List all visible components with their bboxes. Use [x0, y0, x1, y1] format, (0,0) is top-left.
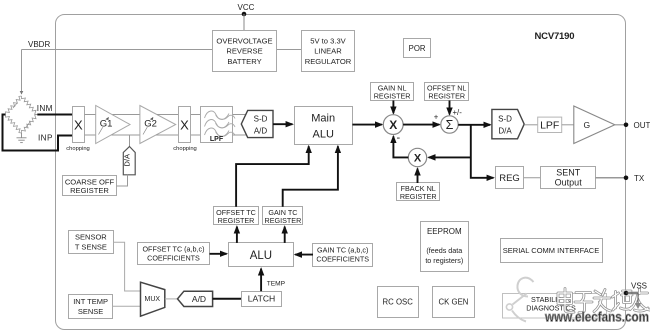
wire SD-AD to Main ALU: [273, 123, 292, 125]
svg-text:X: X: [389, 118, 397, 132]
svg-text:TX: TX: [634, 174, 645, 183]
svg-text:X: X: [180, 117, 189, 132]
svg-text:chopping: chopping: [173, 146, 197, 152]
wire feedback multiplier to main multiplier: [393, 136, 408, 157]
svg-text:REGULATOR: REGULATOR: [305, 57, 352, 66]
fback NL register block: [397, 183, 440, 202]
MUX: [141, 282, 165, 316]
wire gain coefficients to ALU: [295, 254, 313, 256]
5V to 3.3V linear regulator block: [302, 31, 355, 72]
svg-text:GAIN TC (a,b,c): GAIN TC (a,b,c): [317, 245, 368, 254]
wire offset coefficients to ALU: [210, 253, 227, 255]
sigma-delta D/A converter: [492, 109, 524, 138]
output filter LPF: [538, 117, 562, 132]
svg-text:G: G: [584, 120, 591, 130]
svg-text:www.elecfans.com: www.elecfans.com: [544, 309, 649, 325]
wire G to OUT: [615, 124, 626, 126]
VCC node dot: [242, 12, 247, 17]
wire gain TC register to Main ALU: [283, 146, 338, 207]
multiplier X: [383, 115, 403, 135]
svg-text:SENSE: SENSE: [78, 307, 103, 316]
svg-text:+: +: [434, 112, 439, 121]
temp A/D converter: [178, 291, 213, 306]
OUT node dot: [624, 123, 629, 128]
svg-text:REGISTER: REGISTER: [428, 92, 465, 101]
wire SENT to TX: [596, 177, 626, 179]
sensor bridge: [5, 96, 37, 133]
wires G1 to G2: [113, 114, 140, 116]
svg-text:INM: INM: [37, 104, 53, 113]
RC OSC block: [378, 287, 419, 318]
svg-text:INT TEMP: INT TEMP: [73, 297, 108, 306]
serial comm interface block: [501, 239, 603, 263]
CK GEN block: [433, 287, 475, 318]
SENT output block: [541, 167, 596, 189]
output buffer G: [574, 106, 615, 144]
svg-text:(feeds data: (feeds data: [426, 246, 462, 255]
svg-text:A/D: A/D: [254, 127, 268, 136]
svg-text:POR: POR: [409, 44, 426, 53]
wire multiplier to summer: [403, 124, 439, 126]
svg-text:ALU: ALU: [312, 129, 333, 141]
svg-text:VSS: VSS: [631, 282, 647, 291]
amplifier G2: [140, 106, 176, 144]
POR block: [404, 39, 431, 58]
int temp sense block: [69, 295, 113, 319]
wire overvoltage to regulator: [277, 49, 302, 51]
wire fback register to feedback multiplier: [417, 169, 419, 183]
gain NL register block: [371, 83, 414, 101]
svg-text:-: -: [397, 132, 401, 144]
wire latch to ALU temp: [260, 269, 262, 292]
wire summer to SD-DA: [458, 124, 490, 126]
wire REG to SENT: [524, 177, 541, 179]
feedback multiplier X: [408, 148, 426, 166]
svg-text:chopping: chopping: [66, 146, 90, 152]
svg-text:INP: INP: [38, 134, 53, 143]
wire VBDR horizontal: [22, 49, 213, 51]
svg-text:CK GEN: CK GEN: [439, 298, 469, 307]
ground symbol below bridge: [17, 133, 27, 143]
wire VSS: [626, 293, 638, 303]
svg-text:REGISTER: REGISTER: [400, 192, 437, 201]
REG block: [496, 167, 524, 189]
svg-text:G1: G1: [100, 119, 113, 130]
wires X2 to LPF: [191, 114, 201, 116]
coarse off register block: [63, 176, 117, 196]
svg-text:D/A: D/A: [123, 153, 132, 167]
svg-text:SENSOR: SENSOR: [75, 233, 107, 242]
gain TC coefficients block: [313, 244, 373, 267]
svg-text:RC OSC: RC OSC: [383, 298, 414, 307]
latch block: [242, 292, 282, 307]
svg-text:OVERVOLTAGE: OVERVOLTAGE: [216, 37, 272, 46]
svg-text:S-D: S-D: [498, 115, 512, 124]
svg-text:COEFFICIENTS: COEFFICIENTS: [316, 254, 369, 263]
wire offset NL register to summer: [449, 101, 451, 115]
gain TC register block: [263, 207, 303, 226]
svg-text:REGISTER: REGISTER: [218, 216, 255, 225]
wires X1 to G1: [85, 114, 96, 116]
svg-text:OFFSET TC (a,b,c): OFFSET TC (a,b,c): [142, 245, 204, 254]
svg-text:SENT: SENT: [556, 168, 581, 178]
svg-text:A/D: A/D: [192, 294, 206, 304]
wire SD-DA to LPF2: [524, 124, 538, 126]
svg-text:REGISTER: REGISTER: [265, 216, 302, 225]
ALU block: [229, 243, 294, 267]
svg-text:SERIAL COMM INTERFACE: SERIAL COMM INTERFACE: [503, 246, 599, 255]
svg-text:T SENSE: T SENSE: [75, 242, 107, 251]
offset TC register block: [214, 207, 259, 226]
EEPROM block: [421, 222, 469, 272]
wire sensor T sense to MUX: [113, 242, 140, 291]
svg-text:EEPROM: EEPROM: [427, 227, 462, 236]
wire INM thick: [37, 114, 72, 116]
svg-text:TEMP: TEMP: [267, 281, 286, 288]
summer sigma: [441, 116, 458, 133]
svg-text:Output: Output: [555, 178, 583, 188]
svg-text:NCV7190: NCV7190: [535, 31, 575, 42]
svg-text:LINEAR: LINEAR: [314, 47, 342, 56]
svg-text:REVERSE: REVERSE: [226, 47, 262, 56]
svg-text:X: X: [414, 153, 422, 165]
VSS arrow: [635, 303, 641, 309]
wires LPF to SD-AD: [233, 114, 246, 116]
coarse offset D/A: [123, 147, 136, 175]
wire offset TC register to Main ALU: [236, 146, 309, 207]
svg-text:REG: REG: [499, 173, 520, 184]
svg-text:D/A: D/A: [498, 127, 512, 136]
wire VBDR down to bridge: [21, 50, 23, 95]
offset NL register block: [425, 83, 469, 101]
wire A/D to latch: [213, 298, 242, 300]
svg-text:COEFFICIENTS: COEFFICIENTS: [147, 254, 200, 263]
svg-text:X: X: [74, 117, 83, 132]
wire LPF2 to G: [562, 124, 574, 126]
low pass filter LPF: [201, 107, 236, 143]
svg-text:REGISTER: REGISTER: [374, 92, 411, 101]
svg-text:Main: Main: [311, 113, 335, 125]
wire D/A tap: [129, 135, 131, 147]
svg-text:MUX: MUX: [145, 296, 161, 303]
wires G2 to X2: [157, 114, 178, 116]
svg-text:VBDR: VBDR: [28, 40, 50, 49]
wire ALU to offset TC register: [236, 227, 238, 243]
wire MUX to A/D: [165, 298, 178, 300]
offset TC coefficients block: [138, 243, 210, 265]
svg-text:S-D: S-D: [254, 115, 268, 124]
svg-text:VCC: VCC: [238, 3, 255, 12]
svg-text:BATTERY: BATTERY: [227, 57, 261, 66]
wire branch to feedback multiplier: [429, 156, 471, 158]
svg-text:Σ: Σ: [446, 118, 454, 132]
VSS node dot: [624, 291, 629, 296]
svg-text:5V to 3.3V: 5V to 3.3V: [310, 37, 346, 46]
svg-text:ALU: ALU: [250, 250, 272, 262]
chopper X2: [173, 107, 197, 153]
TX node dot: [624, 176, 629, 181]
sensor T sense block: [69, 231, 114, 254]
watermark chinese characters: [558, 289, 650, 313]
wire coarse off register to D/A: [117, 175, 128, 186]
svg-text:G2: G2: [144, 119, 157, 130]
wire INP thick: [3, 115, 73, 151]
wire gain NL register to multiplier: [392, 101, 394, 114]
svg-text:REGISTER: REGISTER: [70, 186, 109, 195]
wire Main ALU to multiplier: [352, 124, 381, 126]
chopper X1: [66, 107, 90, 153]
amplifier G1: [96, 106, 130, 144]
watermark logo swoosh: [506, 278, 533, 322]
wire ALU to gain TC register: [284, 227, 286, 243]
stability and diagnostics block: [503, 294, 607, 319]
svg-text:LPF: LPF: [540, 120, 559, 132]
svg-text:+/-: +/-: [453, 108, 463, 117]
sigma-delta A/D converter: [241, 110, 273, 137]
wire branch down to REG: [471, 125, 494, 178]
wire int temp sense to MUX: [113, 305, 141, 307]
Main ALU block: [295, 107, 353, 145]
svg-text:LPF: LPF: [210, 136, 224, 143]
wire VCC to overvoltage block: [243, 14, 245, 30]
overvoltage reverse battery block: [213, 31, 277, 72]
svg-text:OUT: OUT: [634, 121, 650, 130]
svg-text:to registers): to registers): [425, 256, 463, 265]
svg-text:LATCH: LATCH: [248, 294, 276, 304]
